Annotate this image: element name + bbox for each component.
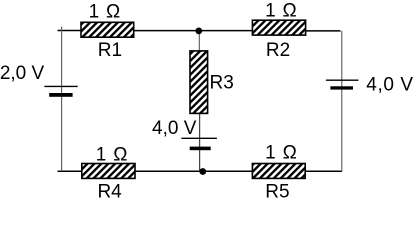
svg-text:R1: R1	[98, 40, 122, 61]
battery V1 left 2,0 V	[0, 63, 78, 97]
wire middle vertical node-to-R3	[198, 31, 200, 52]
svg-text:1 Ω: 1 Ω	[265, 143, 297, 164]
wire bottom-left horizontal	[58, 170, 83, 172]
wire bottom-right horizontal	[305, 170, 342, 172]
svg-text:R5: R5	[265, 182, 289, 203]
resistor R1	[81, 2, 134, 61]
svg-text:R4: R4	[97, 182, 122, 203]
resistor R4	[82, 144, 135, 202]
svg-text:1 Ω: 1 Ω	[89, 2, 121, 23]
svg-text:1 Ω: 1 Ω	[96, 144, 128, 165]
svg-text:R2: R2	[266, 40, 290, 61]
battery V2 middle 4,0 V	[152, 118, 217, 150]
wire top-left horizontal	[58, 30, 82, 32]
wire right vertical	[341, 31, 343, 172]
wire top-right horizontal	[306, 30, 341, 32]
battery V3 right 4,0 V	[326, 75, 414, 96]
node top junction	[195, 28, 202, 35]
resistor R3	[190, 51, 234, 114]
svg-text:4,0 V: 4,0 V	[152, 118, 197, 139]
svg-text:2,0 V: 2,0 V	[0, 63, 44, 84]
wire middle vertical R3-to-node	[199, 113, 201, 171]
wire left vertical	[61, 27, 63, 172]
resistor R2	[252, 0, 305, 61]
wire top-middle horizontal	[134, 30, 253, 32]
resistor R5	[252, 143, 305, 203]
svg-text:1 Ω: 1 Ω	[265, 0, 297, 21]
svg-text:4,0 V: 4,0 V	[366, 75, 413, 96]
node bottom junction	[199, 168, 206, 175]
wire bottom-middle horizontal	[135, 170, 253, 172]
svg-text:R3: R3	[210, 73, 234, 94]
